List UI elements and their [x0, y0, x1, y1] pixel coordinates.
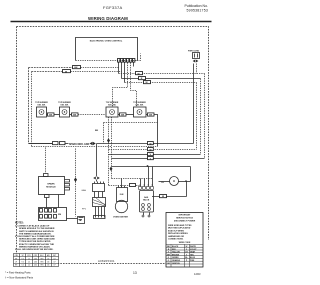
svg-text:BLUE: BLUE: [190, 257, 196, 259]
wire SW4-J4: [146, 114, 148, 116]
svg-text:BLACK: BLACK: [172, 245, 179, 248]
svg-text:RF: RF: [15, 258, 17, 260]
connector blobs on W1: [53, 142, 59, 145]
label H1: [148, 142, 154, 145]
wire drop x118: [118, 63, 120, 74]
svg-text:DISCONNECT POWER: DISCONNECT POWER: [174, 221, 196, 223]
svg-text:.066: .066: [34, 262, 37, 264]
wire SW3-J3: [118, 114, 120, 116]
wire dashed x75.5 with disconnect: [75, 149, 77, 217]
wire y166: [112, 166, 191, 168]
wire switch loop left: [104, 122, 158, 124]
svg-text:IGN. SW.: IGN. SW.: [108, 105, 116, 107]
svg-text:CONNECTIONS.: CONNECTIONS.: [168, 239, 184, 241]
svg-text:EXACTLY WHEN: EXACTLY WHEN: [168, 229, 184, 232]
wire J1-SW2: [54, 114, 60, 116]
burner switch SW4: [134, 107, 147, 117]
legend table: [166, 244, 203, 267]
svg-text:12/03: 12/03: [194, 272, 201, 276]
svg-text:1/4: 1/4: [47, 262, 49, 264]
wire y185.5 valve feed: [109, 185, 140, 187]
svg-text:13: 13: [133, 271, 137, 275]
oven igniter circle: [115, 200, 127, 212]
svg-text:.052: .052: [34, 265, 37, 267]
wire x21 vertical: [28, 68, 30, 144]
svg-text:WHITE: WHITE: [190, 246, 197, 248]
svg-text:BK: BK: [74, 67, 78, 69]
wire spark top to W2: [45, 148, 47, 174]
switch bus wire segment SW1-J1: [47, 114, 48, 116]
oven igniter wire: [121, 179, 123, 188]
svg-text:ORF: ORF: [34, 255, 37, 257]
svg-text:1. CONNECT AT BLACK LEAD OF: 1. CONNECT AT BLACK LEAD OF: [15, 225, 50, 228]
svg-text:GRAY: GRAY: [190, 251, 196, 254]
svg-text:3. ALL GROUNDS MUST BE SECURE: 3. ALL GROUNDS MUST BE SECURE.: [15, 248, 54, 251]
wire N y71.5: [32, 71, 63, 73]
legend warning box: [166, 213, 203, 268]
wire to right corner: [154, 115, 158, 147]
wire SW3 bottom drop B: [111, 117, 113, 179]
connector blob J3: [120, 113, 127, 116]
wire y178: [112, 178, 153, 180]
wire label y78: [139, 77, 146, 80]
wire label on y67: [73, 66, 81, 69]
bottom left table: [14, 254, 59, 267]
plug pin wire x196: [196, 64, 198, 74]
wire drop x124: [124, 63, 126, 83]
svg-text:IMPORTANT: IMPORTANT: [179, 214, 192, 217]
svg-text:ORANGE: ORANGE: [172, 259, 181, 262]
svg-text:VALVE: VALVE: [143, 199, 150, 202]
terminal cluster of U1: [118, 59, 135, 63]
svg-text:LF: LF: [15, 262, 17, 264]
svg-text:SET: SET: [53, 255, 56, 257]
wire label y82: [144, 81, 151, 84]
wire valve to right: [152, 196, 187, 198]
svg-text:SWITCH HARNESS AS SHOWN IN: SWITCH HARNESS AS SHOWN IN: [19, 230, 54, 233]
wire y78 to right: [122, 78, 201, 80]
svg-text:SZ: SZ: [22, 255, 24, 257]
header separator line: [11, 21, 212, 23]
svg-text:W: W: [186, 246, 188, 248]
oven lamp wire left: [159, 181, 170, 183]
wire J3-SW4: [126, 114, 134, 116]
wire L1 top left y67: [29, 67, 73, 69]
svg-text:1/4: 1/4: [47, 258, 49, 260]
wire label y73.5: [136, 72, 143, 75]
outer dashed console box: [17, 27, 209, 264]
svg-text:5.0: 5.0: [21, 265, 23, 267]
wire x200.5: [200, 79, 202, 155]
wire block to ground box: [67, 218, 78, 220]
svg-text:BROWN: BROWN: [172, 254, 180, 256]
svg-text:MODULE: MODULE: [46, 187, 56, 189]
oven control U1 box: [76, 38, 138, 61]
svg-text:Publication No.: Publication No.: [184, 4, 208, 8]
svg-text:SPARK: SPARK: [47, 183, 55, 186]
oven igniter body: [117, 188, 128, 202]
gas valve feeds: [141, 167, 153, 187]
dashed stub from cluster to box right: [135, 54, 141, 61]
burner switch SW1: [37, 107, 47, 117]
svg-text:TYPES MUST BE DUPLICATED: TYPES MUST BE DUPLICATED: [19, 240, 51, 243]
svg-text:EXACTLY WHEN REPLACING THE: EXACTLY WHEN REPLACING THE: [19, 243, 55, 246]
svg-text:YES: YES: [40, 265, 43, 267]
wire x204.5: [204, 74, 206, 159]
wire label on y71.5: [63, 70, 71, 73]
spark module top tab: [44, 174, 49, 177]
gas valve terminal squares: [139, 187, 142, 190]
svg-text:VIOLET: VIOLET: [190, 249, 197, 251]
svg-text:9.5: 9.5: [21, 258, 23, 260]
wire y82 to right: [125, 82, 197, 84]
svg-text:IGN. SW.: IGN. SW.: [136, 105, 144, 107]
valve bottom wires: [96, 207, 105, 218]
valve coils: [142, 204, 145, 207]
burner switch SW2: [60, 107, 70, 117]
long wire H2 y149.5: [109, 149, 197, 151]
svg-text:1.5: 1.5: [28, 258, 30, 260]
svg-text:SM: SM: [58, 214, 61, 216]
wire y73.5 to right: [119, 73, 205, 75]
svg-text:BK: BK: [95, 130, 99, 132]
spark module right connectors: [65, 180, 70, 191]
svg-text:.066: .066: [34, 258, 37, 260]
svg-text:LP: LP: [54, 262, 56, 264]
wire x103 down: [103, 123, 105, 144]
svg-text:5995381753: 5995381753: [187, 9, 208, 13]
valve mid wires: [95, 192, 103, 198]
svg-text:2. DISCONNECT ALL POWER BEFOR: 2. DISCONNECT ALL POWER BEFORE: [15, 235, 55, 238]
disconnect arrows on W1: [90, 142, 96, 145]
svg-text:IGN: IGN: [120, 194, 124, 196]
svg-text:1/4: 1/4: [47, 265, 49, 267]
wire SW3 bottom drop A: [108, 117, 110, 186]
svg-text:ELECTRONIC OVEN CONTROL: ELECTRONIC OVEN CONTROL: [90, 40, 123, 42]
connector blob J2: [72, 113, 79, 116]
wire drop x121: [121, 63, 123, 79]
spark wire W1 y144.5: [29, 143, 53, 145]
svg-text:GREEN: GREEN: [172, 257, 179, 259]
igniter terminals: [119, 186, 125, 188]
svg-text:WIRING DIAGRAM: WIRING DIAGRAM: [88, 16, 128, 21]
svg-text:WIRING HARNESS OR LEADS.: WIRING HARNESS OR LEADS.: [19, 245, 51, 248]
gas valve body: [140, 191, 154, 213]
wire x24 vertical: [31, 72, 33, 147]
wire spark bottom to block: [46, 198, 48, 208]
disconnect on drop A: [107, 138, 110, 143]
junction dot lamp: [185, 180, 187, 182]
svg-text:THE WIRING DIAGRAM ABOVE.: THE WIRING DIAGRAM ABOVE.: [19, 232, 52, 235]
connector blob J4: [148, 113, 155, 116]
svg-text:YELLOW: YELLOW: [172, 252, 180, 254]
svg-text:MUST BE DUPLICATED: MUST BE DUPLICATED: [168, 227, 191, 230]
svg-text:OVEN IGNITER: OVEN IGNITER: [113, 217, 128, 219]
svg-text:YES: YES: [40, 258, 43, 260]
burner switch SW3: [106, 107, 118, 117]
oven lamp: [170, 177, 179, 186]
long wire H1 y144.5: [29, 143, 194, 145]
svg-text:SPARK MOD. GND: SPARK MOD. GND: [69, 143, 90, 146]
spark module bottom tab: [45, 195, 50, 198]
wire W2 y147: [32, 146, 158, 148]
svg-text:SERVICING UNIT. WIRE SIZES AND: SERVICING UNIT. WIRE SIZES AND: [19, 238, 55, 241]
oven lamp wire right: [179, 181, 191, 183]
notes block: [15, 223, 55, 252]
junction dot: [147, 165, 149, 167]
stub terminal: [133, 63, 135, 67]
long wire H4 y158.5: [112, 158, 205, 160]
wire SW2-J2: [70, 114, 72, 116]
disconnect on drop B: [110, 167, 113, 172]
svg-text:NOTES:: NOTES:: [15, 223, 24, 225]
svg-text:† = Non-Illustrated Parts: † = Non-Illustrated Parts: [5, 276, 34, 280]
spark module SM1: [39, 177, 65, 195]
svg-text:REPLACING WIRING: REPLACING WIRING: [168, 232, 188, 235]
connector block CB1: [39, 208, 67, 221]
wire drop feeding SW4: [131, 63, 137, 108]
svg-text:GRN/YEL: GRN/YEL: [172, 263, 181, 265]
oven valve disconnect: [93, 177, 100, 180]
power plug P1: [193, 53, 200, 59]
svg-text:IGN. SW.: IGN. SW.: [38, 105, 46, 107]
valve bottom stubs: [144, 213, 150, 216]
svg-text:WIRE SIZES AND TYPES: WIRE SIZES AND TYPES: [168, 224, 192, 227]
svg-text:* = Fast-Heating Parts: * = Fast-Heating Parts: [5, 271, 31, 275]
oven valve box2 hatched: [93, 198, 106, 207]
svg-text:WIRE CODE: WIRE CODE: [179, 242, 191, 244]
svg-text:9.5: 9.5: [21, 262, 23, 264]
svg-text:PINK: PINK: [190, 260, 195, 262]
svg-text:LP: LP: [54, 265, 56, 267]
svg-text:IGN. SW.: IGN. SW.: [61, 105, 69, 107]
ground box T1: [78, 217, 85, 224]
svg-text:SERVICE NOTICE: SERVICE NOTICE: [176, 218, 194, 220]
svg-text:YES: YES: [40, 262, 43, 264]
svg-text:LP: LP: [54, 258, 56, 260]
wire dashed J2-SW3: [78, 114, 106, 116]
wire x186 lamp to valve wire: [186, 182, 188, 197]
oven valve terminals: [95, 182, 104, 184]
svg-text:SPARK MODULE TO THE BURNER: SPARK MODULE TO THE BURNER: [19, 227, 55, 230]
connector blob J1: [48, 113, 55, 116]
plug pin wire x193: [193, 64, 195, 144]
svg-text:A08205301: A08205301: [98, 259, 115, 263]
svg-text:GAS: GAS: [81, 189, 86, 192]
svg-text:FGF337A: FGF337A: [103, 5, 122, 10]
wire x196.5: [196, 83, 198, 150]
oven valve box1: [93, 184, 105, 192]
svg-text:HARNESSES OR: HARNESSES OR: [168, 235, 185, 238]
svg-text:1.5: 1.5: [28, 262, 30, 264]
wire drop feeding SW3: [113, 63, 128, 108]
plug disconnect symbol: [193, 60, 199, 63]
long wire H3 y154: [109, 154, 201, 156]
wire x190 to lamp level: [190, 167, 192, 182]
valve feed vertical x96: [96, 144, 98, 177]
svg-text:1.0: 1.0: [28, 265, 30, 267]
